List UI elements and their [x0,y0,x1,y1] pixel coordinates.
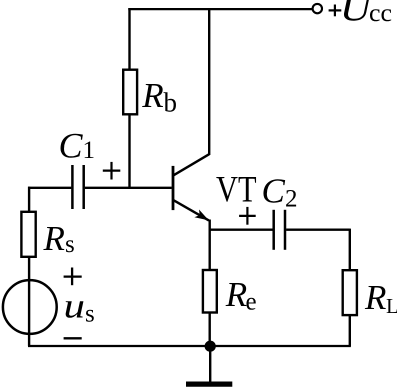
svg-text:u: u [64,287,86,326]
svg-text:R: R [364,278,386,317]
resistor RL [343,270,357,315]
svg-text:L: L [386,294,397,318]
transistor collector diagonal [174,154,210,175]
svg-text:C: C [59,125,84,165]
label + (source polarity) [64,268,82,286]
svg-text:b: b [164,88,178,118]
wire Rb bottom lead [128,114,130,189]
label + of +Ucc [329,5,342,17]
label − (source polarity) [64,337,82,339]
terminal +Ucc open circle [313,4,322,13]
wire C1 to base [85,187,172,189]
wire top rail [128,8,312,10]
ground lead [209,346,211,381]
label + (C1 polarity) [103,162,121,180]
transistor emitter diagonal [174,200,209,220]
transistor emitter arrowhead [194,210,208,221]
svg-text:s: s [85,301,95,328]
svg-text:R: R [43,219,65,258]
svg-text:2: 2 [285,186,298,213]
label + (C2 polarity) [239,207,256,225]
svg-text:VT: VT [216,170,257,211]
svg-text:R: R [225,275,247,314]
svg-text:cc: cc [369,0,392,27]
wire bottom rail [28,345,351,347]
svg-text:e: e [246,288,257,315]
wire left branch top [28,187,30,212]
node emitter-ground junction dot [205,341,216,352]
wire Rb top lead [128,8,130,70]
resistor Re [203,270,217,313]
source us circle [3,280,57,334]
svg-text:R: R [141,76,163,115]
svg-text:1: 1 [83,137,96,164]
wire RL bottom lead [349,315,351,346]
wire C2 to RL [286,229,350,231]
wire RL top lead [349,229,351,271]
wire emitter to C2 [209,229,273,231]
wire input to C1 [28,187,71,189]
wire emitter vertical [208,220,210,271]
svg-text:C: C [262,172,286,211]
transistor VT base bar [172,166,175,210]
wire collector vertical [208,8,210,155]
ground bar [186,381,232,386]
capacitor C1 [71,165,74,209]
svg-text:s: s [65,231,75,258]
resistor Rs [21,212,35,257]
resistor Rb [123,70,137,115]
capacitor C2 [272,210,275,250]
wire Re bottom lead [208,312,210,346]
wire Rs to source (passes through source circle) [28,257,30,346]
